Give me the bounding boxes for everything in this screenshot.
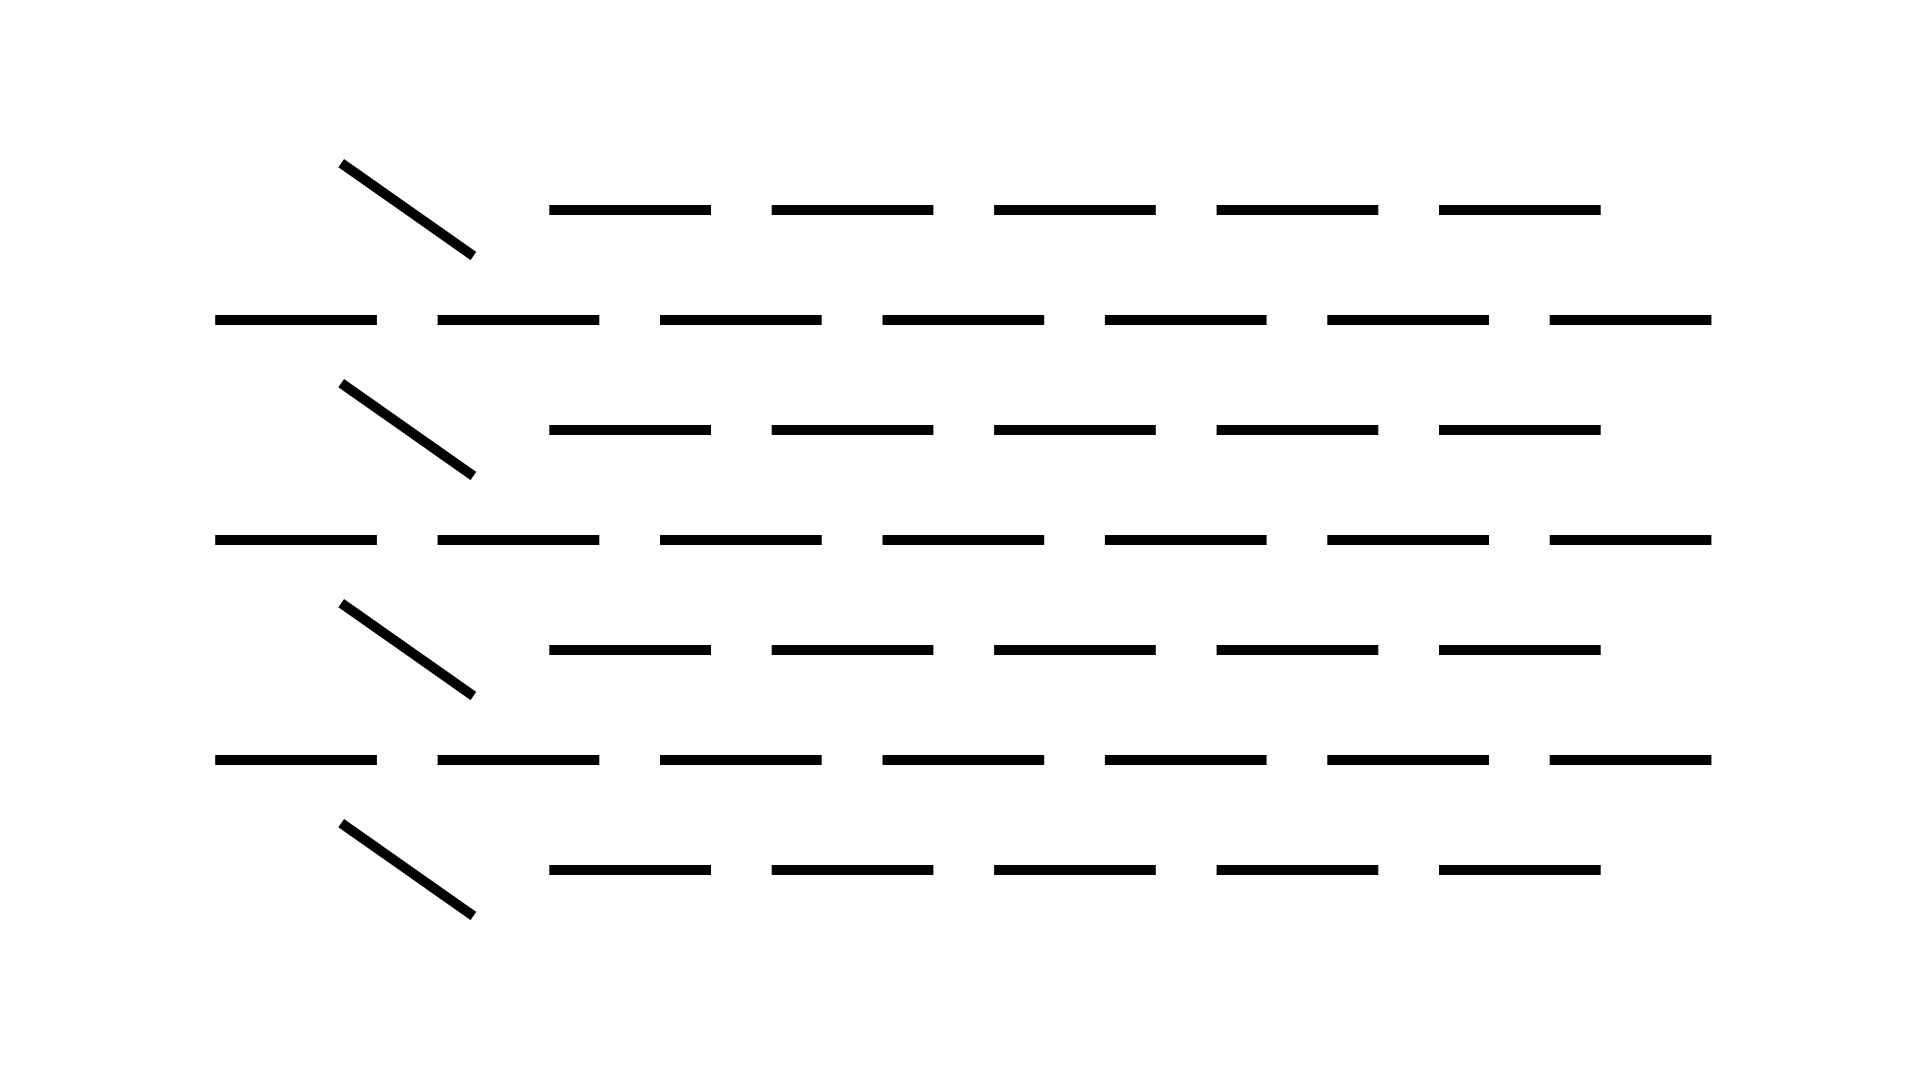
dash row6 seg3	[660, 755, 822, 765]
dash row5 seg2	[772, 645, 934, 655]
dash row4 seg3	[660, 535, 822, 545]
dash row4 seg1	[215, 535, 377, 545]
dash row5 seg1	[549, 645, 711, 655]
dash row1 seg5	[1439, 205, 1601, 215]
dash row5 seg3	[994, 645, 1156, 655]
dash row4 seg6	[1327, 535, 1489, 545]
diagonal stroke S4	[341, 823, 473, 916]
dash row7 seg1	[549, 865, 711, 875]
dash row5 seg5	[1439, 645, 1601, 655]
dash row1 seg4	[1217, 205, 1379, 215]
dash row1 seg3	[994, 205, 1156, 215]
dash row3 seg3	[994, 425, 1156, 435]
dash row7 seg2	[772, 865, 934, 875]
dash row2 seg5	[1105, 315, 1267, 325]
dash row3 seg5	[1439, 425, 1601, 435]
dash row2 seg1	[215, 315, 377, 325]
dash row3 seg4	[1217, 425, 1379, 435]
dash row2 seg2	[438, 315, 600, 325]
dash row2 seg6	[1327, 315, 1489, 325]
dash row4 seg4	[883, 535, 1045, 545]
dash row1 seg2	[772, 205, 934, 215]
dash row4 seg7	[1550, 535, 1712, 545]
dash row6 seg6	[1327, 755, 1489, 765]
dash row7 seg5	[1439, 865, 1601, 875]
dash row2 seg7	[1550, 315, 1712, 325]
dash row5 seg4	[1217, 645, 1379, 655]
dash row3 seg1	[549, 425, 711, 435]
dash row6 seg4	[883, 755, 1045, 765]
dash row6 seg7	[1550, 755, 1712, 765]
dash row7 seg4	[1217, 865, 1379, 875]
dash row4 seg5	[1105, 535, 1267, 545]
diagonal stroke S1	[341, 163, 473, 256]
dash row7 seg3	[994, 865, 1156, 875]
dash row4 seg2	[438, 535, 600, 545]
diagonal stroke S3	[341, 603, 473, 696]
diagonal stroke S2	[341, 383, 473, 476]
dash row6 seg1	[215, 755, 377, 765]
dash row6 seg5	[1105, 755, 1267, 765]
dash row2 seg4	[883, 315, 1045, 325]
dash row2 seg3	[660, 315, 822, 325]
dash row3 seg2	[772, 425, 934, 435]
dash row1 seg1	[549, 205, 711, 215]
dash row6 seg2	[438, 755, 600, 765]
